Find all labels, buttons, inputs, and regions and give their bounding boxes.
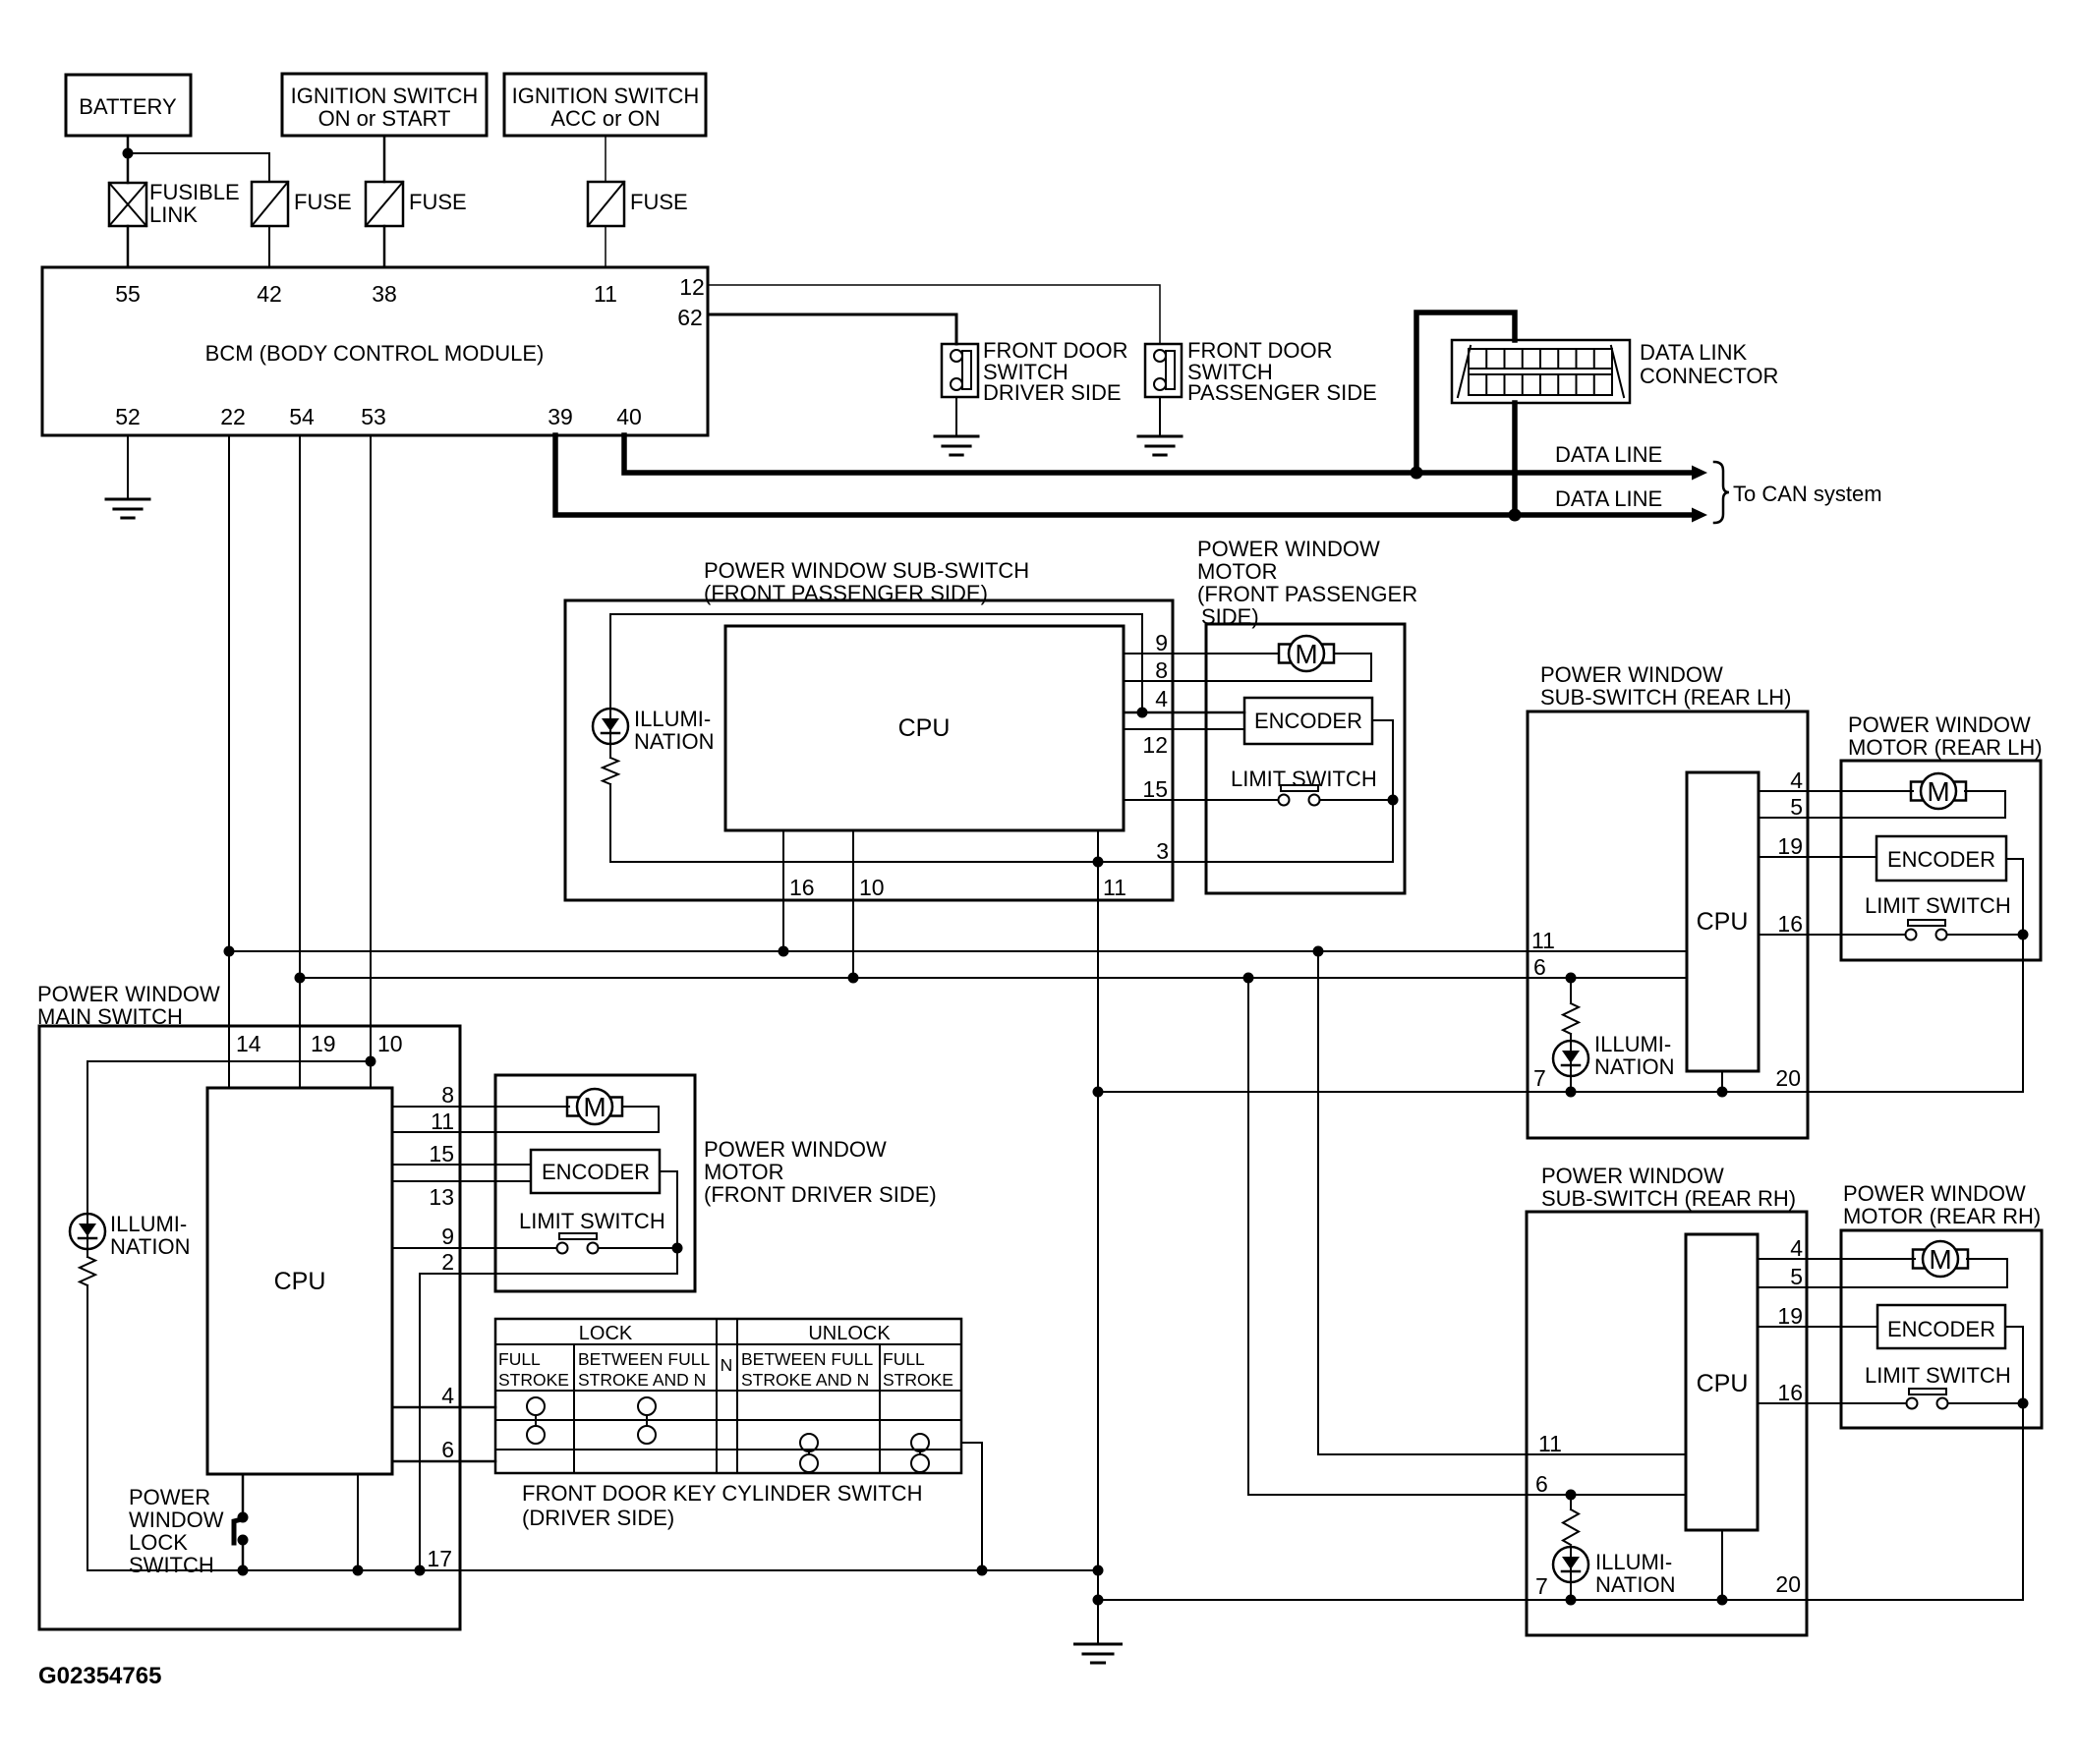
wire encoder right down RH xyxy=(2005,1327,2023,1600)
svg-text:WINDOW: WINDOW xyxy=(129,1508,224,1532)
svg-text:BETWEEN FULL: BETWEEN FULL xyxy=(578,1349,710,1369)
svg-text:POWER WINDOW SUB-SWITCH: POWER WINDOW SUB-SWITCH xyxy=(704,558,1029,583)
svg-text:(FRONT PASSENGER: (FRONT PASSENGER xyxy=(1197,582,1417,606)
resistor illumination LH R2 xyxy=(1570,978,1572,1003)
svg-text:20: 20 xyxy=(1775,1571,1801,1597)
svg-text:ILLUMI-: ILLUMI- xyxy=(1595,1550,1672,1574)
key cylinder contacts unlock between xyxy=(800,1434,818,1451)
wire main pin 8 to motor xyxy=(392,1106,569,1108)
ground passenger door switch xyxy=(1138,435,1182,438)
wire resistor to loop bottom FP xyxy=(609,784,611,862)
junction RH pin6 resistor xyxy=(1566,1490,1577,1501)
svg-text:POWER WINDOW: POWER WINDOW xyxy=(1848,712,2031,737)
svg-text:M: M xyxy=(1929,1244,1951,1275)
CPU front passenger U2A xyxy=(725,626,1124,830)
svg-text:42: 42 xyxy=(257,281,282,307)
junction FP11 at rear RH 7 wire xyxy=(1093,1595,1104,1606)
wire BCM 53 to main switch pin 10 xyxy=(370,435,372,1088)
svg-text:FUSE: FUSE xyxy=(630,190,688,214)
svg-text:ILLUMI-: ILLUMI- xyxy=(110,1212,187,1236)
LED illumination LH D2 xyxy=(1553,1041,1588,1076)
wire motor return to pin 5 LH xyxy=(1965,791,2005,818)
svg-text:12: 12 xyxy=(1142,732,1168,758)
wire CPU second pin to bus xyxy=(357,1474,359,1570)
wire FP pin 15 to limit switch xyxy=(1124,799,1278,801)
svg-text:LIMIT SWITCH: LIMIT SWITCH xyxy=(519,1209,665,1233)
svg-text:POWER: POWER xyxy=(129,1485,210,1509)
svg-text:ILLUMI-: ILLUMI- xyxy=(634,707,711,731)
svg-text:MOTOR (REAR LH): MOTOR (REAR LH) xyxy=(1848,735,2043,760)
svg-text:SIDE): SIDE) xyxy=(1201,604,1259,629)
svg-text:POWER WINDOW: POWER WINDOW xyxy=(1843,1181,2026,1206)
junction bus2 at BCM54 xyxy=(295,973,306,984)
wire RH pin 16 to limit switch xyxy=(1758,1402,1906,1404)
svg-text:DRIVER SIDE: DRIVER SIDE xyxy=(983,380,1122,405)
BCM body control module U1 xyxy=(42,267,708,435)
CPU main switch U5A xyxy=(207,1088,392,1474)
wire FP pin 9 to motor xyxy=(1124,653,1279,654)
svg-text:55: 55 xyxy=(115,281,141,307)
wire battery branch to fuse 42 xyxy=(128,153,269,182)
wire branch to rear RH pin 6 xyxy=(1248,978,1686,1495)
wire driver door switch to ground xyxy=(955,397,957,436)
key cylinder contacts lock full stroke xyxy=(527,1397,545,1415)
encoder front driver xyxy=(531,1150,660,1193)
wire BCM 22 to main switch pin 14 xyxy=(228,435,230,1088)
svg-text:ON or START: ON or START xyxy=(318,106,451,131)
svg-text:STROKE: STROKE xyxy=(498,1370,569,1390)
motor box rear RH xyxy=(1841,1230,2042,1428)
svg-text:ENCODER: ENCODER xyxy=(1254,709,1362,733)
junction bus2 branch rear RH xyxy=(1243,973,1254,984)
wire BCM 52 to ground xyxy=(127,435,129,499)
power window sub-switch front passenger side U2 xyxy=(565,600,1173,900)
arrow data line lower xyxy=(1692,508,1707,523)
wire fusible link to BCM pin 55 xyxy=(127,226,130,267)
arrow data line upper xyxy=(1692,466,1707,481)
wire LED to pin7 wire LH xyxy=(1570,1076,1572,1092)
svg-text:13: 13 xyxy=(429,1184,454,1210)
junction bus2 at FP pin10 xyxy=(848,973,859,984)
junction bus1 at BCM22 xyxy=(224,946,235,957)
wire encoder right down FP xyxy=(1372,720,1393,862)
front door switch passenger side S2 xyxy=(1145,344,1182,397)
svg-text:FUSE: FUSE xyxy=(294,190,352,214)
wire passenger door switch to ground xyxy=(1159,397,1161,436)
svg-text:ENCODER: ENCODER xyxy=(1887,847,1995,872)
svg-text:MOTOR (REAR RH): MOTOR (REAR RH) xyxy=(1843,1204,2041,1228)
svg-text:CPU: CPU xyxy=(1697,1370,1749,1397)
wire bus1 pin22 rail xyxy=(229,950,1687,952)
svg-text:52: 52 xyxy=(115,404,141,429)
svg-text:12: 12 xyxy=(679,274,705,300)
svg-text:2: 2 xyxy=(441,1249,454,1275)
wire FP pin 12 to encoder xyxy=(1124,728,1244,730)
wire main pin 15 to encoder xyxy=(392,1164,531,1166)
svg-text:N: N xyxy=(721,1355,733,1375)
wire LH pin 19 to encoder xyxy=(1759,856,1876,858)
svg-text:ENCODER: ENCODER xyxy=(1887,1317,1995,1341)
svg-text:LIMIT SWITCH: LIMIT SWITCH xyxy=(1865,893,2011,918)
svg-text:19: 19 xyxy=(1777,833,1803,859)
wire FP pin 16 down to bus1 xyxy=(782,830,784,951)
junction pin11 at loop bottom FP xyxy=(1093,857,1104,868)
svg-text:M: M xyxy=(1927,776,1949,807)
power window sub-switch rear RH U4 xyxy=(1527,1212,1807,1635)
svg-text:SUB-SWITCH (REAR LH): SUB-SWITCH (REAR LH) xyxy=(1540,685,1791,710)
svg-text:MOTOR: MOTOR xyxy=(1197,559,1277,584)
svg-text:BCM (BODY CONTROL MODULE): BCM (BODY CONTROL MODULE) xyxy=(205,341,545,366)
wire fuse F3 to BCM pin 11 xyxy=(605,226,606,267)
svg-text:20: 20 xyxy=(1775,1065,1801,1091)
svg-text:17: 17 xyxy=(427,1546,452,1571)
svg-text:STROKE: STROKE xyxy=(883,1370,953,1390)
svg-text:BATTERY: BATTERY xyxy=(79,94,177,119)
svg-text:ACC or ON: ACC or ON xyxy=(550,106,660,131)
svg-text:POWER WINDOW: POWER WINDOW xyxy=(1540,662,1723,687)
svg-text:STROKE AND N: STROKE AND N xyxy=(741,1370,869,1390)
svg-text:11: 11 xyxy=(1103,875,1126,900)
ground driver door switch xyxy=(935,435,978,438)
ignition switch ACC/ON xyxy=(504,74,706,136)
limit switch FP xyxy=(1281,785,1318,791)
wire ignition ACC to fuse F3 xyxy=(605,136,606,182)
wire resistor to pin17 bus main xyxy=(87,1285,88,1570)
power window sub-switch rear LH U3 xyxy=(1528,711,1808,1138)
wire data link connector stub thick xyxy=(1416,313,1515,473)
wire lock switch to pin17 bus xyxy=(242,1540,245,1570)
wire FP pin 11 down to ground rail xyxy=(1097,830,1099,1644)
svg-text:39: 39 xyxy=(548,404,573,429)
resistor illumination FP R1 xyxy=(603,758,618,784)
junction limit switch FP xyxy=(1388,795,1399,806)
wire main pin 6 to key cylinder xyxy=(392,1460,495,1463)
svg-text:4: 4 xyxy=(1790,768,1803,793)
svg-text:BETWEEN FULL: BETWEEN FULL xyxy=(741,1349,873,1369)
svg-text:8: 8 xyxy=(1155,657,1168,683)
encoder rear RH xyxy=(1877,1305,2005,1348)
svg-text:7: 7 xyxy=(1535,1573,1548,1599)
svg-text:NATION: NATION xyxy=(1594,1054,1674,1079)
junction FP11 at rear LH 7 wire xyxy=(1093,1087,1104,1098)
wire BCM 39 data line lower xyxy=(555,435,1693,515)
svg-text:62: 62 xyxy=(677,305,703,330)
svg-text:CPU: CPU xyxy=(274,1268,326,1295)
fusible link FL xyxy=(109,183,146,226)
wire BCM 62 to driver door switch xyxy=(708,314,956,344)
motor rear LH M2 xyxy=(1911,782,1923,801)
wire motor return to pin 8 FP xyxy=(1334,654,1371,681)
power window main switch U5 xyxy=(39,1026,460,1629)
encoder rear LH xyxy=(1876,836,2006,881)
wire illumination loop FP xyxy=(610,614,1142,712)
resistor illumination RH R3 xyxy=(1570,1495,1572,1509)
junction loop to pin4 wire FP xyxy=(1137,708,1148,718)
svg-text:ENCODER: ENCODER xyxy=(542,1160,650,1184)
wire limit switch to junction main xyxy=(600,1247,677,1249)
fuse F3 xyxy=(588,182,624,226)
svg-text:LOCK: LOCK xyxy=(579,1323,633,1344)
svg-text:FRONT DOOR KEY CYLINDER SWITCH: FRONT DOOR KEY CYLINDER SWITCH xyxy=(522,1481,922,1506)
LED illumination main D4 xyxy=(70,1214,105,1249)
key cylinder contacts unlock full stroke xyxy=(911,1434,929,1451)
svg-text:6: 6 xyxy=(441,1437,454,1462)
svg-text:POWER WINDOW: POWER WINDOW xyxy=(1197,537,1380,561)
wire bus2 pin54 rail xyxy=(300,977,1687,979)
svg-text:FULL: FULL xyxy=(883,1349,925,1369)
svg-text:11: 11 xyxy=(1538,1431,1562,1456)
wire LH pin 4 to motor xyxy=(1759,790,1913,792)
motor box rear LH xyxy=(1841,761,2041,960)
wire limit switch to junction RH xyxy=(1948,1402,2023,1404)
svg-text:16: 16 xyxy=(789,875,815,900)
wire branch to rear RH pin 11 xyxy=(1318,951,1686,1454)
junction limit switch main xyxy=(672,1243,683,1254)
svg-text:5: 5 xyxy=(1790,794,1803,820)
junction LED at 7 wire RH xyxy=(1566,1595,1577,1606)
wire rear LH pin 7 / 20 rail xyxy=(1098,1091,2023,1093)
svg-text:8: 8 xyxy=(441,1082,454,1108)
junction loop at pin10 xyxy=(366,1056,376,1067)
svg-text:M: M xyxy=(583,1092,606,1122)
wire FP pin 8 xyxy=(1124,680,1371,682)
svg-text:10: 10 xyxy=(859,875,885,900)
svg-text:IGNITION SWITCH: IGNITION SWITCH xyxy=(291,84,479,108)
svg-text:PASSENGER SIDE: PASSENGER SIDE xyxy=(1187,380,1377,405)
key cylinder contacts lock between xyxy=(638,1397,656,1415)
wire main pin 13 to encoder xyxy=(392,1180,531,1182)
svg-text:NATION: NATION xyxy=(634,729,714,754)
junction CPU bottom RH xyxy=(1717,1595,1728,1606)
battery B1 xyxy=(66,75,191,136)
wire BCM 40 data line upper xyxy=(624,435,1693,473)
ignition switch ON/START xyxy=(282,74,487,136)
svg-text:DATA LINK: DATA LINK xyxy=(1640,340,1748,365)
svg-text:To CAN system: To CAN system xyxy=(1733,482,1882,506)
svg-text:NATION: NATION xyxy=(110,1234,190,1259)
svg-text:9: 9 xyxy=(1155,630,1168,655)
motor front passenger M1 xyxy=(1279,645,1291,663)
svg-text:19: 19 xyxy=(311,1031,336,1056)
svg-text:15: 15 xyxy=(429,1141,454,1167)
junction LH pin6 resistor xyxy=(1566,973,1577,984)
svg-text:IGNITION SWITCH: IGNITION SWITCH xyxy=(512,84,700,108)
svg-text:MOTOR: MOTOR xyxy=(704,1160,783,1184)
limit switch main xyxy=(559,1233,597,1239)
front door key cylinder switch S3 xyxy=(495,1319,961,1473)
svg-text:DATA LINE: DATA LINE xyxy=(1555,486,1662,511)
junction limit switch RH xyxy=(2018,1398,2029,1409)
wire BCM 54 to main switch pin 19 xyxy=(299,435,301,1088)
wire main pin 11 xyxy=(392,1131,659,1133)
svg-text:M: M xyxy=(1295,639,1317,669)
svg-text:10: 10 xyxy=(377,1031,403,1056)
svg-text:40: 40 xyxy=(616,404,642,429)
svg-text:19: 19 xyxy=(1777,1303,1803,1329)
wire limit switch to junction FP xyxy=(1320,799,1393,801)
svg-text:FUSE: FUSE xyxy=(409,190,467,214)
svg-text:4: 4 xyxy=(1155,686,1168,711)
data link connector J1 xyxy=(1452,340,1630,403)
svg-text:4: 4 xyxy=(441,1383,454,1408)
motor box front passenger side xyxy=(1206,624,1405,893)
junction data line upper xyxy=(1411,467,1423,480)
wire ignition ON to fuse F2 xyxy=(383,136,386,182)
CPU rear RH U4A xyxy=(1686,1234,1758,1530)
motor box front driver side xyxy=(495,1075,695,1291)
wire LED to resistor FP xyxy=(609,744,611,758)
ground center bottom xyxy=(1075,1643,1122,1646)
wire fuse F1 to BCM pin 42 xyxy=(268,226,270,267)
wire CPU bottom to 7 rail RH xyxy=(1721,1530,1723,1600)
svg-text:16: 16 xyxy=(1777,911,1803,937)
junction FP11 at pin17 bus xyxy=(1093,1565,1104,1576)
wire resistor to LED LH xyxy=(1570,1034,1572,1041)
wire pin 3 loop bottom FP xyxy=(610,861,1393,863)
wire LH pin 16 to limit switch xyxy=(1759,934,1905,936)
junction CPU bottom LH xyxy=(1717,1087,1728,1098)
svg-text:SUB-SWITCH (REAR RH): SUB-SWITCH (REAR RH) xyxy=(1541,1186,1796,1211)
svg-text:16: 16 xyxy=(1777,1380,1803,1405)
wire battery to fusible link xyxy=(127,136,130,183)
brace to CAN xyxy=(1714,462,1729,523)
wire pin 2 return down to bus xyxy=(420,1274,677,1570)
wire main pin 4 to key cylinder xyxy=(392,1406,495,1409)
fuse F1 xyxy=(252,182,288,226)
junction LED at 7 wire LH xyxy=(1566,1087,1577,1098)
svg-text:11: 11 xyxy=(431,1109,454,1134)
wire illumination loop main xyxy=(87,1061,371,1214)
svg-text:UNLOCK: UNLOCK xyxy=(808,1323,891,1344)
motor front driver M4 xyxy=(567,1098,579,1116)
ground BCM xyxy=(106,498,149,501)
wire RH pin 19 to encoder xyxy=(1758,1326,1877,1328)
svg-text:22: 22 xyxy=(220,404,246,429)
wire encoder right down LH xyxy=(2006,859,2023,1092)
junction limit switch LH xyxy=(2018,930,2029,940)
svg-text:4: 4 xyxy=(1790,1235,1803,1261)
svg-text:CPU: CPU xyxy=(1697,908,1749,936)
svg-text:5: 5 xyxy=(1790,1264,1803,1289)
svg-text:38: 38 xyxy=(372,281,397,307)
svg-text:SWITCH: SWITCH xyxy=(129,1553,214,1577)
svg-text:FUSIBLE: FUSIBLE xyxy=(149,180,240,204)
svg-text:POWER WINDOW: POWER WINDOW xyxy=(1541,1164,1724,1188)
wire data link connector to data line lower xyxy=(1512,403,1518,515)
wire FP pin 4 to encoder xyxy=(1124,711,1244,714)
svg-text:LIMIT SWITCH: LIMIT SWITCH xyxy=(1231,767,1377,791)
svg-text:6: 6 xyxy=(1533,954,1546,980)
svg-text:CPU: CPU xyxy=(898,714,951,742)
svg-text:9: 9 xyxy=(441,1223,454,1249)
resistor illumination main R4 xyxy=(80,1257,95,1285)
junction CPU pin at bus xyxy=(353,1565,364,1576)
svg-text:ILLUMI-: ILLUMI- xyxy=(1594,1032,1671,1056)
wire LED to resistor main xyxy=(87,1249,88,1257)
junction battery branch xyxy=(123,148,134,159)
wire CPU to lock switch xyxy=(242,1474,245,1515)
svg-text:LOCK: LOCK xyxy=(129,1530,188,1555)
encoder front passenger xyxy=(1244,698,1372,744)
junction key cylinder at bus xyxy=(977,1565,988,1576)
svg-text:POWER WINDOW: POWER WINDOW xyxy=(37,982,220,1006)
junction bus1 branch rear RH xyxy=(1313,946,1324,957)
front door switch driver side S1 xyxy=(942,344,978,397)
wire key cylinder to pin17 bus xyxy=(961,1443,982,1570)
wire motor return to pin 5 RH xyxy=(1967,1259,2007,1287)
wire limit switch to junction LH xyxy=(1947,934,2023,936)
svg-text:15: 15 xyxy=(1142,776,1168,802)
wire pin 17 bus xyxy=(87,1569,1098,1571)
wire main pin 9 to limit switch xyxy=(392,1247,556,1249)
LED illumination FP D1 xyxy=(593,709,628,744)
svg-text:CONNECTOR: CONNECTOR xyxy=(1640,364,1778,388)
junction bus1 at FP pin16 xyxy=(779,946,789,957)
svg-text:14: 14 xyxy=(236,1031,261,1056)
motor rear RH M3 xyxy=(1913,1250,1925,1269)
wire LH pin 5 xyxy=(1759,817,2005,819)
svg-text:11: 11 xyxy=(594,281,617,307)
svg-text:DATA LINE: DATA LINE xyxy=(1555,442,1662,467)
svg-text:NATION: NATION xyxy=(1595,1572,1675,1597)
svg-text:7: 7 xyxy=(1533,1065,1546,1091)
limit switch RH xyxy=(1909,1389,1946,1394)
junction lock switch at bus xyxy=(238,1565,249,1576)
svg-text:G02354765: G02354765 xyxy=(38,1663,161,1689)
fuse F2 xyxy=(366,182,403,226)
wire fuse F2 to BCM pin 38 xyxy=(383,226,386,267)
wire RH pin 5 xyxy=(1758,1286,2007,1288)
svg-text:(DRIVER SIDE): (DRIVER SIDE) xyxy=(522,1506,674,1530)
svg-text:LIMIT SWITCH: LIMIT SWITCH xyxy=(1865,1363,2011,1388)
svg-text:11: 11 xyxy=(1531,928,1555,953)
CPU rear LH U3A xyxy=(1687,772,1759,1071)
svg-text:3: 3 xyxy=(1156,838,1169,864)
wire rear RH pin 7 / 20 rail xyxy=(1098,1599,2023,1601)
wire motor return to pin 11 main xyxy=(622,1107,659,1132)
power window lock switch S4 xyxy=(234,1519,242,1543)
junction data line lower xyxy=(1509,509,1522,522)
svg-text:(FRONT DRIVER SIDE): (FRONT DRIVER SIDE) xyxy=(704,1182,937,1207)
wire FP pin 10 down to bus2 xyxy=(852,830,854,978)
svg-text:POWER WINDOW: POWER WINDOW xyxy=(704,1137,887,1162)
wire BCM 12 to passenger door switch xyxy=(708,285,1160,344)
svg-text:53: 53 xyxy=(361,404,386,429)
wire LED to pin7 wire RH xyxy=(1570,1582,1572,1600)
wire encoder right down main xyxy=(660,1171,677,1274)
svg-text:FULL: FULL xyxy=(498,1349,541,1369)
LED illumination RH D3 xyxy=(1553,1547,1588,1582)
junction pin2 wire at bus xyxy=(415,1565,426,1576)
svg-text:STROKE AND N: STROKE AND N xyxy=(578,1370,706,1390)
limit switch LH xyxy=(1908,920,1945,926)
svg-text:LINK: LINK xyxy=(149,202,198,227)
wire RH pin 4 to motor xyxy=(1758,1258,1915,1260)
wire CPU bottom to 7 rail LH xyxy=(1721,1071,1723,1092)
svg-text:54: 54 xyxy=(289,404,315,429)
svg-text:6: 6 xyxy=(1535,1471,1548,1497)
